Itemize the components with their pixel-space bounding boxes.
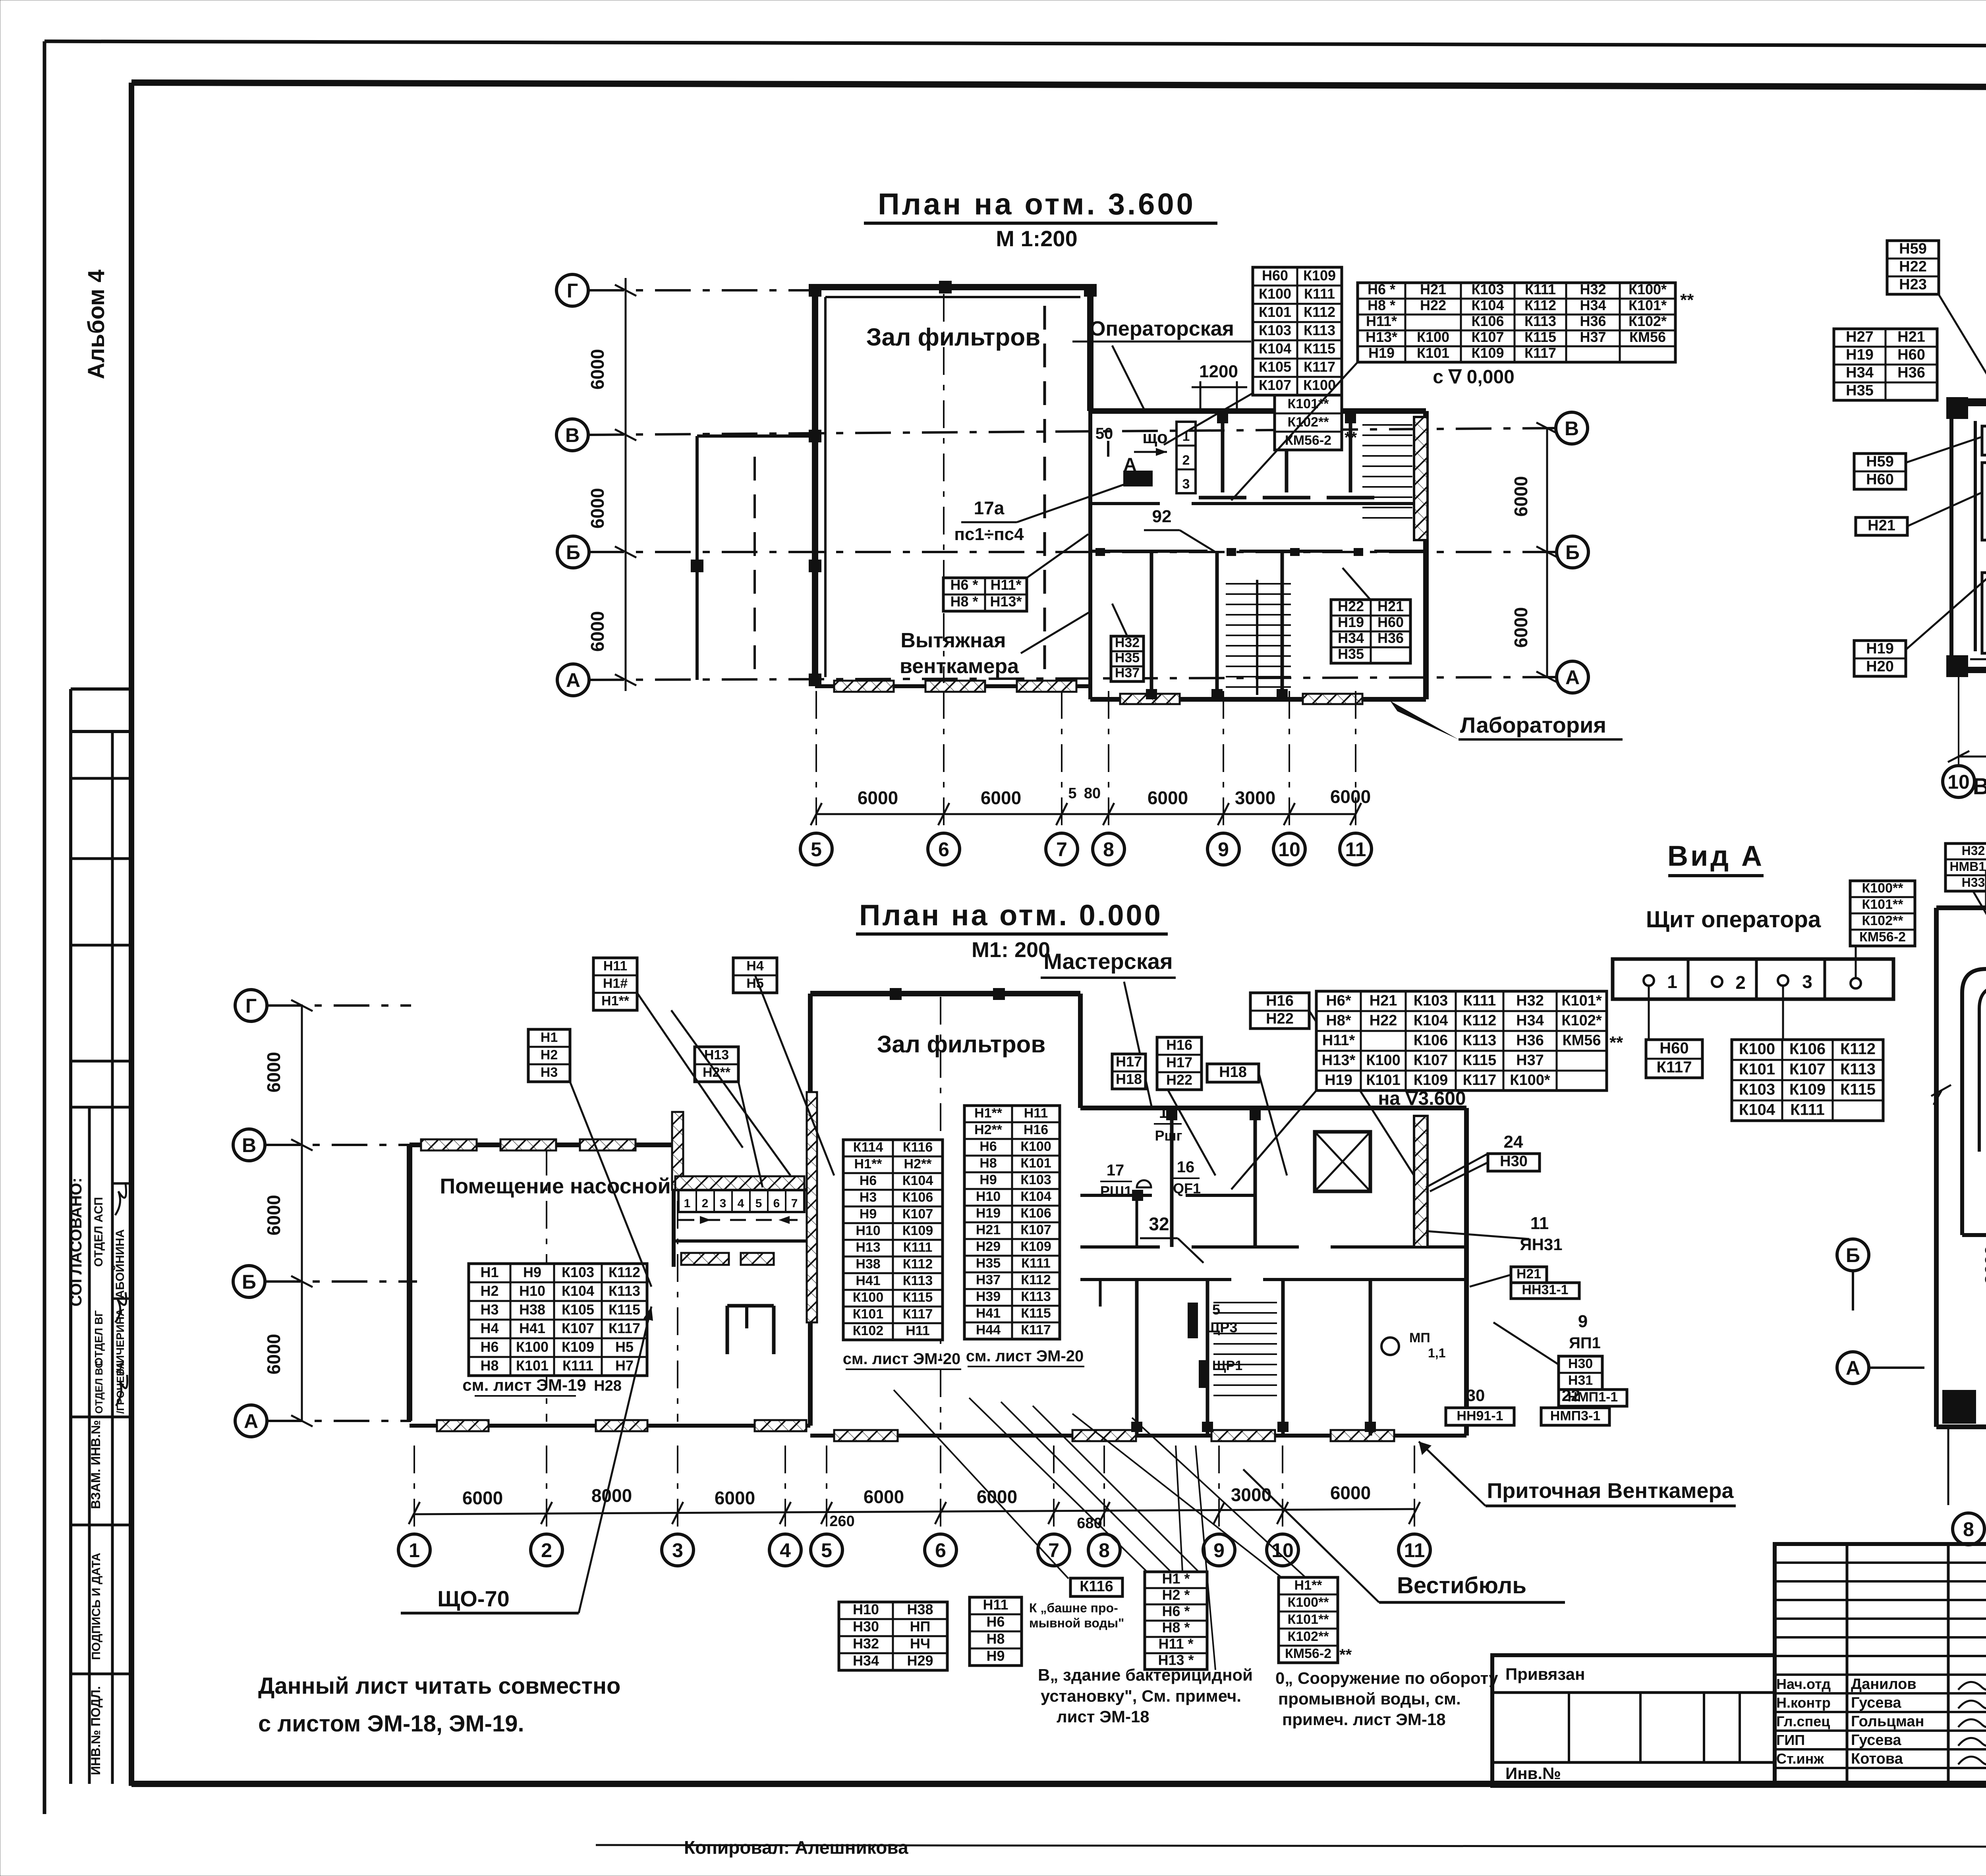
- svg-text:6000: 6000: [263, 1052, 284, 1092]
- svg-text:Н37: Н37: [1516, 1052, 1544, 1069]
- bottom leader fan lines: [894, 1390, 1068, 1579]
- svg-text:КМ56: КМ56: [1629, 329, 1666, 345]
- lab plan walls: [1951, 398, 1986, 406]
- svg-text:План на отм. 0.000: План на отм. 0.000: [859, 899, 1163, 932]
- svg-text:К109: К109: [902, 1223, 933, 1238]
- svg-text:А: А: [1123, 454, 1136, 475]
- svg-text:К107: К107: [902, 1206, 933, 1222]
- svg-text:Н33: Н33: [1962, 875, 1985, 890]
- svg-text:К117: К117: [1021, 1322, 1051, 1338]
- svg-text:Н11: Н11: [1024, 1106, 1048, 1121]
- svg-text:Н1**: Н1**: [601, 994, 630, 1009]
- svg-text:НН91-1: НН91-1: [1457, 1409, 1503, 1424]
- big table bottom plan right: [1316, 991, 1607, 1090]
- svg-text:МП: МП: [1409, 1330, 1430, 1345]
- svg-text:10: 10: [1271, 1539, 1294, 1561]
- break marks: [1931, 1085, 1951, 1105]
- svg-text:Н19: Н19: [1325, 1072, 1352, 1089]
- svg-text:см. лист ЭМ-20: см. лист ЭМ-20: [843, 1350, 961, 1368]
- svg-text:3000: 3000: [1235, 787, 1275, 808]
- svg-text:Б: Б: [242, 1271, 256, 1293]
- svg-text:Н11: Н11: [906, 1323, 930, 1338]
- svg-text:К115: К115: [1304, 340, 1335, 357]
- svg-text:К114: К114: [853, 1140, 883, 1155]
- top plan: axis lines: [556, 274, 588, 306]
- svg-text:Н29: Н29: [907, 1652, 933, 1669]
- svg-text:РШ1: РШ1: [1100, 1183, 1132, 1199]
- svg-text:К107: К107: [1414, 1052, 1448, 1069]
- svg-text:50: 50: [1095, 425, 1113, 442]
- svg-text:Н11: Н11: [603, 959, 628, 974]
- svg-text:КМ56: КМ56: [1562, 1032, 1601, 1049]
- svg-text:см. лист ЭМ-20: см. лист ЭМ-20: [966, 1347, 1084, 1365]
- svg-text:К100: К100: [1366, 1052, 1401, 1069]
- svg-text:К101: К101: [853, 1307, 883, 1322]
- svg-text:Н36: Н36: [1377, 630, 1404, 646]
- svg-text:К106: К106: [1471, 313, 1504, 329]
- svg-text:5: 5: [1212, 1301, 1220, 1318]
- table T2 big 6col: [1358, 281, 1675, 362]
- svg-text:К117: К117: [1657, 1059, 1692, 1076]
- svg-text:Н11*: Н11*: [1366, 313, 1397, 329]
- svg-text:К106: К106: [1020, 1206, 1051, 1221]
- svg-text:пс1÷пс4: пс1÷пс4: [954, 525, 1024, 544]
- svg-text:Н11*: Н11*: [1322, 1032, 1355, 1049]
- ventkamera leaders from top tables: [1973, 892, 1986, 981]
- svg-text:6: 6: [935, 1539, 946, 1561]
- svg-text:2: 2: [541, 1539, 552, 1561]
- elevator box: [1315, 1132, 1370, 1191]
- svg-text:К104: К104: [562, 1283, 594, 1299]
- left frame sidebar: [69, 689, 72, 1784]
- svg-text:Н34: Н34: [853, 1652, 879, 1669]
- svg-text:11: 11: [1345, 838, 1366, 861]
- svg-text:КМ56-2: КМ56-2: [1859, 930, 1906, 945]
- svg-text:К116: К116: [1080, 1578, 1113, 1595]
- svg-text:Н32: Н32: [1115, 635, 1140, 650]
- svg-text:К101**: К101**: [1288, 396, 1329, 411]
- lab windows bottom: [1970, 658, 1986, 660]
- svg-text:5: 5: [811, 838, 822, 861]
- svg-text:Н13*: Н13*: [1366, 329, 1397, 345]
- corridor between nasosnaya and zal: [674, 1188, 810, 1191]
- operator panel drawing: [1613, 959, 1893, 999]
- zal filtrov (bottom): [807, 1092, 817, 1322]
- svg-text:А: А: [244, 1410, 258, 1432]
- svg-text:К104: К104: [1739, 1101, 1775, 1119]
- svg-text:К100**: К100**: [1862, 881, 1904, 896]
- svg-text:Помещение насосной: Помещение насосной: [440, 1174, 670, 1198]
- svg-text:Н17: Н17: [1116, 1054, 1142, 1070]
- svg-text:Н4: Н4: [480, 1320, 498, 1336]
- svg-text:Привязан: Привязан: [1505, 1665, 1585, 1683]
- svg-text:Мастерская: Мастерская: [1043, 949, 1173, 974]
- svg-text:К105: К105: [562, 1301, 594, 1318]
- svg-text:К103: К103: [1020, 1172, 1051, 1187]
- svg-text:Н9: Н9: [860, 1206, 877, 1222]
- svg-text:НП: НП: [910, 1618, 931, 1635]
- svg-text:Н59: Н59: [1866, 453, 1894, 470]
- svg-text:5: 5: [821, 1539, 832, 1561]
- svg-text:Н60: Н60: [1866, 471, 1894, 488]
- svg-text:Н60: Н60: [1897, 346, 1925, 363]
- svg-text:6000: 6000: [1330, 1482, 1371, 1503]
- svg-text:К103: К103: [1414, 992, 1448, 1009]
- top plan: stair top right with hatch: [1414, 417, 1428, 540]
- svg-text:**: **: [1609, 1033, 1623, 1052]
- svg-text:3000: 3000: [1231, 1484, 1271, 1505]
- svg-text:Н28: Н28: [594, 1378, 622, 1394]
- svg-text:К112: К112: [1304, 304, 1335, 320]
- svg-text:6: 6: [938, 838, 949, 861]
- svg-text:К100: К100: [1259, 286, 1291, 302]
- svg-text:мывной воды": мывной воды": [1029, 1616, 1124, 1630]
- svg-text:К109: К109: [1020, 1239, 1051, 1254]
- svg-text:Альбом 4: Альбом 4: [83, 270, 109, 379]
- svg-text:с ∇ 0,000: с ∇ 0,000: [1433, 367, 1515, 388]
- svg-text:Н60: Н60: [1377, 614, 1404, 630]
- svg-text:Н32: Н32: [853, 1635, 879, 1652]
- svg-text:К101**: К101**: [1288, 1612, 1329, 1627]
- svg-text:К101: К101: [516, 1357, 549, 1374]
- svg-text:К112: К112: [903, 1256, 933, 1272]
- svg-text:Н8 *: Н8 *: [950, 593, 978, 610]
- ventkamera top tables: [1945, 843, 1986, 891]
- svg-text:80: 80: [1084, 785, 1101, 802]
- nasosnaya walls: [410, 1143, 674, 1147]
- svg-text:Н13: Н13: [856, 1240, 880, 1255]
- svg-text:Н21: Н21: [1377, 598, 1404, 614]
- svg-text:Н11*: Н11*: [990, 577, 1021, 593]
- svg-text:Гусева: Гусева: [1851, 1732, 1901, 1749]
- svg-text:Н10: Н10: [853, 1601, 879, 1617]
- svg-text:8: 8: [1103, 838, 1114, 861]
- svg-text:6000: 6000: [263, 1334, 284, 1374]
- svg-text:Вестибюль: Вестибюль: [1397, 1573, 1526, 1598]
- svg-text:К104: К104: [1020, 1189, 1051, 1204]
- svg-text:К104: К104: [1414, 1012, 1448, 1029]
- svg-text:К101: К101: [1020, 1156, 1051, 1171]
- svg-text:К100*: К100*: [1510, 1072, 1550, 1089]
- svg-text:ЩР3: ЩР3: [1206, 1319, 1238, 1336]
- svg-text:Н10: Н10: [519, 1283, 545, 1299]
- svg-text:ОТДЕЛ ВС: ОТДЕЛ ВС: [93, 1361, 105, 1414]
- svg-text:Н32: Н32: [1516, 992, 1544, 1009]
- top plan: right block outline: [1090, 408, 1426, 414]
- svg-text:Гусева: Гусева: [1851, 1695, 1901, 1711]
- svg-text:Н5: Н5: [615, 1339, 634, 1355]
- bottom dimension line: [414, 1509, 1414, 1514]
- svg-text:Н9: Н9: [986, 1648, 1005, 1664]
- svg-text:АБОЙНИНА: АБОЙНИНА: [113, 1229, 127, 1299]
- svg-text:Н2**: Н2**: [974, 1122, 1003, 1137]
- svg-text:Б: Б: [1565, 541, 1580, 564]
- svg-text:Н30: Н30: [853, 1618, 879, 1635]
- svg-text:2: 2: [702, 1197, 709, 1210]
- svg-text:М 1:200: М 1:200: [996, 226, 1077, 251]
- svg-text:Н38: Н38: [519, 1301, 545, 1318]
- right block corridor: [1080, 1245, 1160, 1249]
- svg-text:Н6: Н6: [979, 1139, 997, 1154]
- svg-text:Н22: Н22: [1420, 297, 1446, 313]
- top small tables above bottom plan: [593, 958, 637, 1010]
- svg-text:К112: К112: [609, 1264, 640, 1280]
- svg-text:16: 16: [1177, 1158, 1195, 1176]
- stair bottom plan: [1213, 1302, 1277, 1303]
- svg-text:Н1**: Н1**: [974, 1106, 1003, 1121]
- svg-text:Нач.отд: Нач.отд: [1776, 1676, 1831, 1692]
- svg-text:6000: 6000: [1511, 607, 1531, 648]
- svg-text:1: 1: [684, 1197, 691, 1210]
- svg-text:К111: К111: [562, 1357, 593, 1374]
- svg-text:ЩО-70: ЩО-70: [437, 1586, 510, 1611]
- svg-text:К109: К109: [1303, 267, 1336, 284]
- svg-text:Н6: Н6: [480, 1339, 498, 1355]
- svg-text:Зал фильтров: Зал фильтров: [877, 1031, 1045, 1058]
- svg-text:10: 10: [1278, 838, 1300, 861]
- svg-text:ИНВ.№ ПОДЛ.: ИНВ.№ ПОДЛ.: [89, 1686, 103, 1775]
- svg-text:Н32: Н32: [1580, 281, 1606, 297]
- svg-text:Котова: Котова: [1851, 1751, 1903, 1767]
- svg-text:В: В: [565, 424, 580, 446]
- top plan: bottom wall with hatch: [815, 684, 1090, 688]
- svg-text:Н2: Н2: [480, 1283, 498, 1299]
- bottom tables: [839, 1601, 947, 1670]
- svg-text:Н30: Н30: [1500, 1153, 1528, 1170]
- svg-text:Вытяжная: Вытяжная: [900, 629, 1006, 652]
- svg-text:К101**: К101**: [1862, 897, 1904, 912]
- svg-text:К102: К102: [853, 1323, 883, 1338]
- svg-text:Б: Б: [1846, 1244, 1860, 1266]
- svg-text:К111: К111: [1304, 286, 1335, 302]
- svg-text:К112: К112: [1463, 1012, 1497, 1029]
- svg-text:Г: Г: [567, 280, 578, 302]
- svg-text:1200: 1200: [1199, 362, 1238, 381]
- svg-text:Н38: Н38: [907, 1601, 933, 1617]
- svg-text:Н22: Н22: [1266, 1010, 1294, 1027]
- svg-text:НМП3-1: НМП3-1: [1550, 1409, 1600, 1424]
- svg-text:Г: Г: [245, 995, 257, 1017]
- svg-text:Н38: Н38: [856, 1256, 880, 1272]
- svg-text:Н13*: Н13*: [1322, 1052, 1356, 1069]
- svg-text:К117: К117: [903, 1307, 933, 1322]
- svg-text:Н6: Н6: [986, 1614, 1005, 1630]
- svg-text:К103: К103: [1739, 1081, 1775, 1098]
- svg-text:**: **: [1345, 429, 1357, 446]
- svg-text:Н60: Н60: [1262, 267, 1288, 284]
- svg-text:Н16: Н16: [1266, 992, 1294, 1009]
- right block of bottom plan: [1080, 1106, 1466, 1110]
- table T4 N22 N21: [1331, 598, 1410, 663]
- svg-text:Операторская: Операторская: [1090, 317, 1234, 340]
- svg-text:с листом ЭМ-18, ЭМ-19.: с листом ЭМ-18, ЭМ-19.: [258, 1711, 524, 1737]
- svg-text:План на отм. 3.600: План на отм. 3.600: [878, 187, 1196, 221]
- svg-text:Н1 *: Н1 *: [1162, 1571, 1190, 1587]
- svg-text:К109: К109: [1471, 345, 1504, 361]
- svg-text:Н6: Н6: [860, 1173, 877, 1188]
- svg-text:1: 1: [409, 1539, 420, 1561]
- svg-text:Приточная Венткамера: Приточная Венткамера: [1487, 1479, 1734, 1503]
- svg-text:А: А: [1846, 1357, 1860, 1379]
- inner walls right of nasosnaya: [681, 1253, 729, 1265]
- svg-text:30: 30: [1466, 1386, 1485, 1405]
- svg-text:Н19: Н19: [1368, 345, 1395, 361]
- svg-text:Н10: Н10: [976, 1189, 1001, 1204]
- svg-text:Н23: Н23: [1899, 276, 1927, 293]
- svg-text:22: 22: [1562, 1386, 1580, 1405]
- nasosnaya big table T6: [469, 1264, 647, 1376]
- svg-text:В: В: [242, 1134, 256, 1156]
- svg-text:Н21: Н21: [1897, 328, 1925, 345]
- top plan: room 1-2-3 cells: [1177, 422, 1196, 493]
- svg-text:Данный лист читать совместн: Данный лист читать совместно: [258, 1673, 620, 1699]
- svg-text:2: 2: [1182, 453, 1190, 468]
- svg-text:К101: К101: [1417, 345, 1449, 361]
- table T1 (N60 K109...): [1253, 267, 1342, 395]
- svg-text:Н29: Н29: [976, 1239, 1001, 1254]
- svg-text:Вид А: Вид А: [1667, 840, 1764, 872]
- svg-text:В„ здание бактерицидной: В„ здание бактерицидной: [1038, 1666, 1253, 1684]
- svg-text:6000: 6000: [1511, 476, 1531, 517]
- svg-text:К113: К113: [1021, 1289, 1051, 1304]
- svg-text:Н19: Н19: [976, 1206, 1001, 1221]
- svg-text:Н7: Н7: [615, 1357, 634, 1374]
- svg-text:промывной воды, см.: промывной воды, см.: [1278, 1689, 1461, 1708]
- svg-text:К103: К103: [562, 1264, 594, 1280]
- svg-text:К109: К109: [562, 1339, 594, 1355]
- svg-text:Н34: Н34: [1516, 1012, 1544, 1029]
- svg-text:А: А: [566, 669, 580, 691]
- cut tables at left: [1527, 995, 1597, 1051]
- svg-text:6000: 6000: [263, 1195, 284, 1235]
- svg-text:К112: К112: [1524, 297, 1556, 313]
- top plan: left annex: [695, 436, 699, 680]
- svg-text:К103: К103: [1471, 281, 1504, 297]
- svg-text:17а: 17а: [974, 498, 1005, 518]
- top plan: small squares row on corridor: [1095, 548, 1105, 556]
- top plan: upper partitions: [1221, 411, 1225, 492]
- svg-text:Н11: Н11: [983, 1596, 1008, 1613]
- svg-text:СОГЛАСОВАНО:: СОГЛАСОВАНО:: [68, 1177, 85, 1307]
- svg-text:Н22: Н22: [1899, 258, 1927, 275]
- svg-text:Н2**: Н2**: [904, 1156, 932, 1172]
- svg-text:установку", См. примеч.: установку", См. примеч.: [1041, 1687, 1241, 1705]
- svg-text:6: 6: [773, 1197, 780, 1210]
- svg-text:Н21: Н21: [1868, 517, 1895, 534]
- ventkamera duct left: [1962, 969, 1986, 1152]
- МП symbol: [1381, 1338, 1399, 1355]
- corridor stubs: [1099, 1280, 1102, 1307]
- svg-text:17: 17: [1159, 1104, 1177, 1121]
- svg-text:К100**: К100**: [1288, 1595, 1329, 1610]
- svg-text:ЩР1: ЩР1: [1212, 1358, 1242, 1373]
- leaders into vestibule: [1426, 1231, 1529, 1239]
- svg-text:К111: К111: [903, 1240, 933, 1255]
- svg-text:Н8: Н8: [979, 1156, 997, 1171]
- svg-text:Н3: Н3: [860, 1190, 877, 1205]
- svg-text:Н8: Н8: [986, 1631, 1005, 1647]
- svg-text:К101*: К101*: [1561, 992, 1602, 1009]
- svg-text:К113: К113: [609, 1283, 640, 1299]
- svg-text:К107: К107: [1020, 1222, 1051, 1237]
- svg-text:К103: К103: [1259, 322, 1291, 338]
- svg-text:2: 2: [1735, 972, 1746, 993]
- svg-text:6000: 6000: [977, 1486, 1017, 1507]
- table above panel: [1850, 881, 1915, 946]
- svg-text:Н19: Н19: [1866, 640, 1894, 657]
- svg-text:7: 7: [791, 1197, 798, 1210]
- svg-text:ОТДЕЛ ВГ: ОТДЕЛ ВГ: [93, 1310, 105, 1366]
- svg-text:Н8*: Н8*: [1326, 1012, 1351, 1029]
- svg-text:Инв.№: Инв.№: [1505, 1764, 1561, 1783]
- svg-text:Н36: Н36: [1516, 1032, 1544, 1049]
- svg-text:К104: К104: [1259, 340, 1291, 357]
- svg-text:Н6 *: Н6 *: [950, 577, 978, 593]
- svg-text:Н37: Н37: [1115, 665, 1140, 680]
- svg-text:Н9: Н9: [979, 1172, 997, 1187]
- svg-text:6000: 6000: [864, 1486, 904, 1507]
- ventkamera walls: [1936, 905, 1986, 910]
- ventkamera bottom axis: [1837, 1239, 1869, 1271]
- top plan: lower stair: [1226, 583, 1291, 585]
- svg-text:Н34: Н34: [1846, 364, 1874, 381]
- svg-text:Гл.спец: Гл.спец: [1776, 1713, 1830, 1729]
- svg-text:Н2 *: Н2 *: [1162, 1587, 1190, 1603]
- svg-text:3: 3: [672, 1539, 683, 1561]
- svg-text:Н21: Н21: [976, 1222, 1001, 1237]
- top plan axis number circles: [800, 833, 832, 865]
- title block signature grid: [1775, 1544, 1986, 1786]
- svg-text:Копировал: Алешникова: Копировал: Алешникова: [684, 1837, 908, 1858]
- svg-text:К100*: К100*: [1629, 281, 1667, 297]
- svg-text:Н6 *: Н6 *: [1368, 281, 1395, 297]
- svg-text:Н16: Н16: [1024, 1122, 1048, 1137]
- svg-text:11: 11: [1404, 1539, 1425, 1561]
- svg-text:К102**: К102**: [1862, 913, 1904, 928]
- svg-text:ЯП1: ЯП1: [1569, 1334, 1601, 1352]
- svg-text:10: 10: [1947, 771, 1970, 793]
- svg-text:Н3: Н3: [480, 1301, 498, 1318]
- svg-text:К102*: К102*: [1629, 313, 1667, 329]
- svg-text:8: 8: [1963, 1518, 1974, 1540]
- svg-text:К113: К113: [1304, 322, 1335, 338]
- svg-text:7: 7: [1056, 838, 1067, 861]
- svg-text:К106: К106: [1789, 1040, 1826, 1058]
- svg-text:Н36: Н36: [1897, 364, 1925, 381]
- svg-text:К „башне про-: К „башне про-: [1029, 1601, 1118, 1615]
- vertical hatch band right wall of nasosnaya: [672, 1112, 683, 1190]
- svg-text:Н2: Н2: [541, 1048, 558, 1063]
- svg-text:5: 5: [1068, 785, 1076, 802]
- svg-text:НЧ: НЧ: [910, 1635, 930, 1652]
- svg-text:Н39: Н39: [976, 1289, 1001, 1304]
- lab bottom dim: [1959, 756, 1986, 758]
- masterskaya south wall: [1080, 1194, 1152, 1197]
- svg-text:Н21: Н21: [1370, 992, 1397, 1009]
- svg-text:К100: К100: [853, 1290, 883, 1305]
- svg-text:Н.контр: Н.контр: [1776, 1695, 1831, 1711]
- svg-text:Н20: Н20: [1866, 658, 1894, 675]
- top plan: corridor walls: [1090, 502, 1160, 505]
- svg-text:К106: К106: [1414, 1032, 1448, 1049]
- svg-text:11: 11: [1530, 1214, 1549, 1233]
- svg-text:лист ЭМ-18: лист ЭМ-18: [1057, 1707, 1149, 1726]
- svg-text:Н11 *: Н11 *: [1158, 1636, 1193, 1652]
- bottom scan edge: [596, 1845, 1986, 1847]
- svg-text:0„ Сооружение по обороту: 0„ Сооружение по обороту: [1275, 1669, 1498, 1687]
- svg-text:Н35: Н35: [1846, 382, 1874, 399]
- svg-text:Вытяжная венткамера: Вытяжная венткамера: [1973, 774, 1986, 799]
